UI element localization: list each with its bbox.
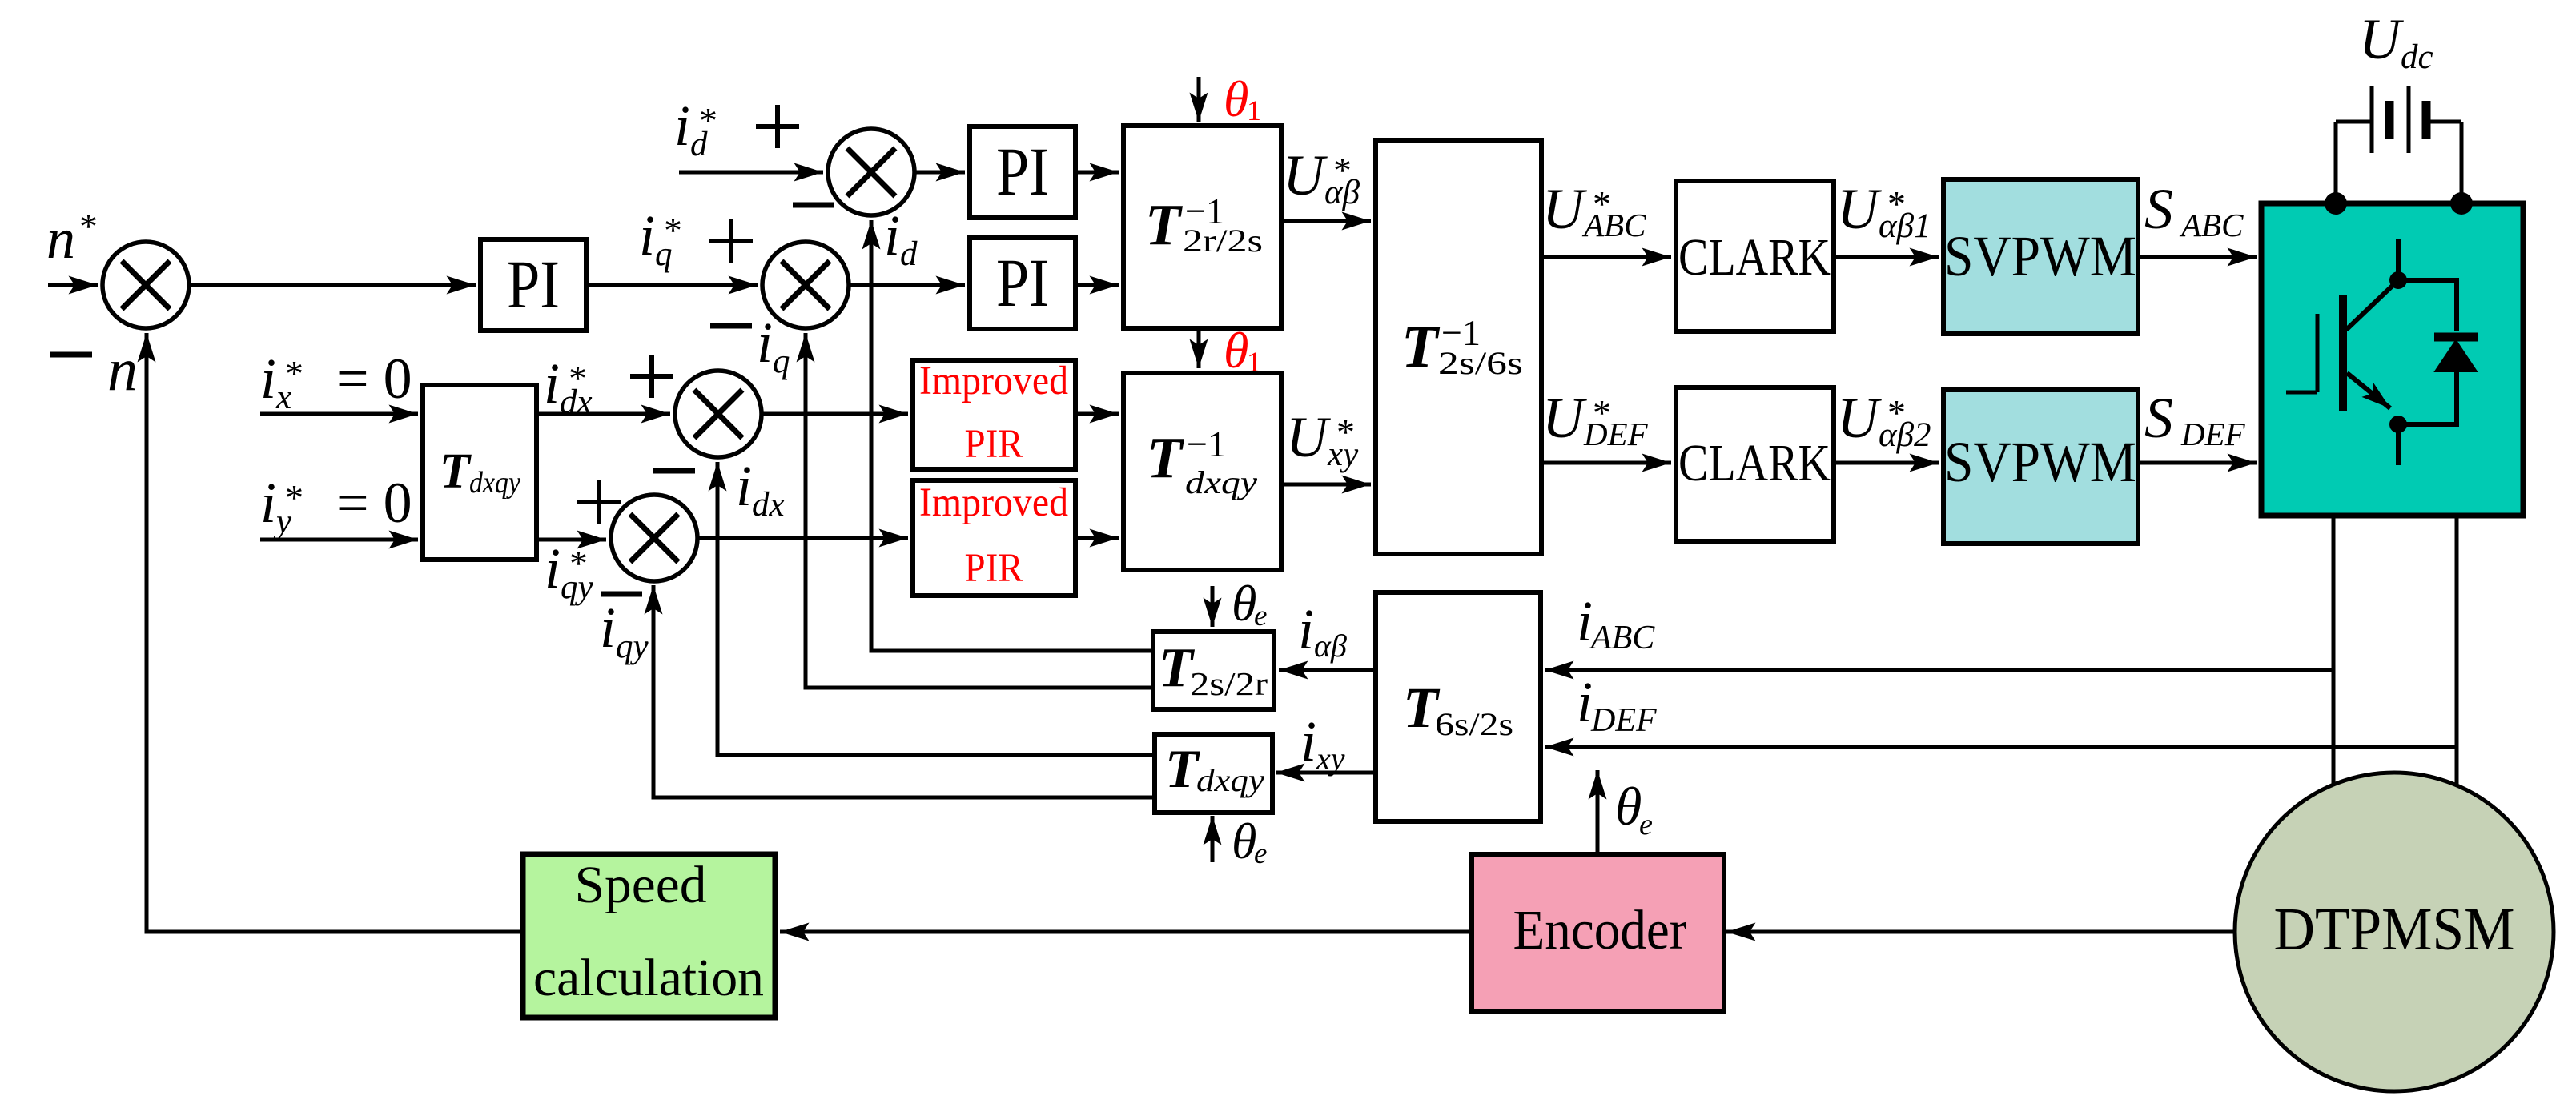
block SVPWM 1 (1943, 179, 2138, 334)
svg-text:q: q (773, 343, 790, 380)
svg-text:n: n (107, 336, 138, 403)
wire speed feedback n from Speed calculation up into S1 (147, 333, 523, 932)
svg-text:PI: PI (996, 244, 1049, 321)
node i_dx feedback label (736, 454, 785, 524)
node i_DEF label (1577, 670, 1657, 739)
node IGBT collector dot (2389, 271, 2407, 289)
node U_alphabeta* label (1283, 143, 1360, 211)
svg-text:1: 1 (1247, 94, 1261, 126)
wire S_ABC from SVPWM 1 to inverter (2138, 255, 2257, 259)
svg-text:i: i (736, 454, 752, 518)
node theta1 label upper (1224, 70, 1261, 127)
svg-text:*: * (1593, 183, 1611, 224)
svg-text:i: i (1300, 709, 1316, 773)
block T2r2s inverse transform (1123, 126, 1281, 328)
svg-text:i: i (1298, 597, 1314, 661)
node i_q* label (639, 203, 682, 273)
node theta_e label at Tdxqy (1232, 813, 1267, 870)
minus sign at S3 (793, 203, 834, 208)
svg-text:qy: qy (616, 628, 649, 665)
wire PI U2 output to T2r2s block (1077, 283, 1119, 287)
svg-text:i: i (1577, 589, 1593, 653)
wire U_alphabeta2* from CLARK 2 to SVPWM 2 (1834, 461, 1939, 465)
node n* reference label (46, 206, 98, 271)
wire inverter bottom lead B to DTPMSM (2455, 513, 2459, 785)
svg-text:e: e (1254, 837, 1267, 870)
svg-text:= 0: = 0 (336, 471, 412, 535)
wire S1 output to speed PI block (189, 283, 476, 287)
svg-text:θ: θ (1224, 70, 1248, 127)
svg-text:*: * (79, 206, 98, 247)
svg-text:T: T (1401, 314, 1441, 380)
wire theta1 input arrow into Tdxqy-inv top (1197, 330, 1201, 368)
wire n* input into summing junction S1 (48, 283, 98, 287)
svg-text:*: * (569, 358, 587, 399)
svg-text:DEF: DEF (2180, 415, 2246, 452)
svg-text:U: U (1283, 143, 1328, 207)
node i_alphabeta label (1298, 597, 1347, 664)
svg-text:e: e (1639, 808, 1653, 841)
svg-text:U: U (1286, 405, 1331, 469)
wire theta_e output arrow from Encoder top (1596, 770, 1600, 854)
plus sign at S4 (630, 355, 673, 398)
svg-text:xy: xy (1316, 741, 1345, 777)
svg-text:θ: θ (1232, 813, 1256, 869)
block Tdxqy reference transform (423, 385, 536, 560)
node i_qy* label (545, 536, 594, 606)
svg-text:e: e (1254, 600, 1267, 632)
wire Encoder output to Speed calculation (780, 930, 1472, 934)
svg-text:U: U (1542, 177, 1587, 241)
wire battery left lead down to inverter (2334, 122, 2338, 203)
svg-text:i: i (260, 471, 276, 535)
svg-text:i: i (260, 347, 276, 411)
transistor IGBT gate lead (2286, 391, 2317, 395)
battery Udc plate short right (2422, 101, 2431, 138)
svg-text:T: T (440, 444, 472, 499)
label Tdxqy inverse block (1147, 424, 1257, 500)
summing junction S5 i_qy error (611, 495, 697, 581)
wire inverter bottom lead A to DTPMSM (2332, 513, 2336, 785)
wire S2 output to PI block U2 (849, 283, 965, 287)
battery Udc plate long left (2370, 86, 2374, 153)
node battery right junction dot (2450, 192, 2473, 215)
wire i_qy* from Tdxqy to summing junction S5 (536, 538, 606, 542)
node i_qy feedback label (600, 596, 649, 665)
wire Improved PIR 1 output to Tdxqy-inv block (1075, 412, 1119, 416)
wire i_xy from T6s2s to Tdxqy feedback block (1276, 771, 1376, 775)
wire U_alphabeta* from T2r2s to T2s6s (1281, 219, 1371, 223)
wire U_DEF* from T2s6s to CLARK 2 (1541, 461, 1671, 465)
svg-text:*: * (285, 477, 303, 518)
svg-text:SVPWM: SVPWM (1944, 430, 2136, 494)
svg-text:Improved: Improved (919, 359, 1068, 403)
svg-text:αβ: αβ (1314, 628, 1347, 664)
block PI d-axis controller U1 (970, 126, 1075, 218)
block T6s2s transform (1376, 592, 1541, 821)
label Tdxqy feedback block (1165, 738, 1264, 799)
wire battery right lead down to inverter (2460, 122, 2464, 203)
wire IGBT collector to diode top (2398, 280, 2457, 331)
svg-text:*: * (1887, 183, 1906, 224)
summing junction S2 i_q error (762, 242, 849, 328)
label T6s2s block (1403, 676, 1513, 742)
wire i_d feedback from T2s2r up into S3 (871, 220, 1153, 651)
svg-text:*: * (1336, 411, 1355, 452)
transistor IGBT gate bar (2316, 314, 2320, 392)
wire i_x*=0 input to Tdxqy block (260, 412, 418, 416)
transistor IGBT body bar (2339, 295, 2347, 411)
plus sign at S2 (709, 219, 753, 263)
minus sign at S1 (50, 352, 92, 358)
svg-text:Speed: Speed (575, 856, 707, 914)
node i_d* label (674, 94, 717, 163)
svg-text:i: i (600, 596, 616, 660)
node S_DEF label (2144, 386, 2246, 452)
svg-text:Encoder: Encoder (1513, 900, 1687, 961)
svg-text:1: 1 (1247, 346, 1261, 378)
wire U_ABC* from T2s6s to CLARK 1 (1541, 255, 1671, 259)
label T2s6s inverse block (1401, 312, 1523, 381)
minus sign at S4 (653, 468, 695, 474)
wire battery right terminal (2426, 120, 2461, 124)
svg-text:PI: PI (507, 246, 560, 323)
node i_d feedback label (884, 203, 918, 273)
wire S5 output to Improved PIR 2 (697, 536, 908, 540)
wire S4 output to Improved PIR 1 (762, 412, 908, 416)
wire i_alphabeta from T6s2s to T2s2r (1279, 668, 1376, 672)
block CLARK 1 (1676, 181, 1834, 331)
node S_ABC label (2144, 177, 2244, 243)
block PI speed controller (480, 239, 586, 331)
svg-text:2s/2r: 2s/2r (1190, 665, 1268, 702)
svg-text:dxqy: dxqy (469, 466, 520, 500)
svg-text:DTPMSM: DTPMSM (2274, 896, 2515, 963)
node i_q feedback label (757, 311, 790, 380)
svg-text:*: * (569, 543, 588, 584)
svg-text:*: * (699, 100, 717, 141)
wire i_ABC feedback from inverter lead into T6s2s (1545, 668, 2333, 672)
block T2s2r feedback transform (1153, 632, 1274, 709)
svg-text:S: S (2144, 177, 2173, 241)
label T2s2r block (1159, 637, 1268, 702)
node U_alphabeta2* label (1837, 386, 1931, 454)
wire i_d* input into summing junction S3 (679, 171, 823, 175)
svg-text:*: * (664, 210, 682, 251)
svg-text:2s/6s: 2s/6s (1438, 345, 1523, 381)
wire battery left terminal (2336, 120, 2372, 124)
battery Udc plate short left (2385, 101, 2394, 138)
wire U_xy* from Tdxqy-inv to T2s6s (1281, 483, 1371, 487)
svg-text:i: i (674, 94, 690, 158)
svg-text:n: n (46, 207, 75, 271)
block T2s6s inverse transform (1376, 140, 1541, 554)
svg-text:PI: PI (996, 133, 1049, 210)
node U_alphabeta1* label (1837, 177, 1931, 245)
node theta_e label at Encoder (1615, 776, 1653, 841)
svg-text:U: U (2359, 7, 2404, 71)
svg-text:i: i (1577, 670, 1593, 734)
svg-text:*: * (285, 353, 303, 394)
minus sign at S5 (601, 592, 642, 597)
summing junction S4 i_dx error (675, 371, 762, 457)
wire Improved PIR 2 output to Tdxqy-inv block (1075, 536, 1119, 540)
svg-text:θ: θ (1615, 776, 1642, 837)
svg-text:PIR: PIR (965, 546, 1023, 591)
node i_ABC label (1577, 589, 1655, 656)
svg-text:ABC: ABC (2179, 207, 2244, 243)
wire i_q* from speed PI to summing junction S2 (586, 283, 758, 287)
block CLARK 2 (1676, 387, 1834, 541)
svg-text:i: i (639, 203, 655, 267)
svg-text:T: T (1147, 425, 1184, 490)
svg-text:= 0: = 0 (336, 347, 412, 411)
svg-text:dx: dx (752, 486, 785, 524)
svg-text:Improved: Improved (919, 480, 1068, 525)
label T2r2s inverse block (1145, 191, 1263, 259)
svg-text:*: * (1593, 392, 1611, 433)
svg-text:*: * (1333, 150, 1352, 191)
svg-text:DEF: DEF (1590, 702, 1657, 739)
node theta1 label lower (1224, 322, 1261, 379)
svg-text:i: i (757, 311, 773, 375)
svg-text:−1: −1 (1187, 424, 1226, 464)
svg-text:U: U (1542, 386, 1587, 450)
svg-text:2r/2s: 2r/2s (1183, 223, 1263, 259)
minus sign at S2 (710, 323, 752, 329)
svg-text:S: S (2144, 386, 2173, 450)
block Tdxqy feedback transform (1155, 734, 1272, 813)
motor DTPMSM circle (2235, 773, 2554, 1091)
node i_y*=0 reference label (260, 471, 412, 540)
wire i_qy feedback from Tdxqy feedback block up into S5 (653, 585, 1155, 797)
node U_ABC* label (1542, 177, 1646, 243)
node i_dx* label (544, 351, 593, 421)
battery Udc plate long right (2407, 86, 2411, 153)
wire theta_e input arrow into Tdxqy feedback block bottom (1211, 816, 1215, 862)
summing junction S1 speed error (102, 242, 189, 328)
node i_x*=0 reference label (260, 347, 412, 416)
svg-text:i: i (884, 203, 900, 267)
svg-text:i: i (544, 351, 560, 415)
wire i_q feedback from T2s2r up into S2 (806, 333, 1153, 688)
node i_xy label (1300, 709, 1345, 777)
wire i_dx feedback from Tdxqy feedback block up into S4 (717, 462, 1155, 755)
wire S_DEF from SVPWM 2 to inverter (2138, 461, 2257, 465)
svg-text:U: U (1837, 386, 1882, 450)
wire i_DEF feedback from inverter lead into T6s2s (1545, 745, 2457, 749)
diode cathode bar (2434, 333, 2478, 342)
node IGBT emitter dot (2389, 415, 2407, 433)
svg-text:CLARK: CLARK (1678, 434, 1831, 492)
plus sign at S3 (756, 105, 799, 148)
block inverter (2261, 203, 2523, 516)
wire S3 output to PI block U1 (914, 171, 965, 175)
svg-text:dc: dc (2401, 38, 2433, 76)
node U_dc label (2359, 7, 2433, 76)
svg-text:dxqy: dxqy (1196, 762, 1264, 798)
svg-text:ABC: ABC (1581, 207, 1646, 243)
wire PI U1 output to T2r2s block (1077, 171, 1119, 175)
summing junction S3 i_d error (828, 129, 914, 215)
diode anode triangle (2437, 342, 2475, 371)
transistor IGBT collector diagonal (2346, 280, 2398, 330)
block Tdxqy inverse transform (1123, 373, 1281, 570)
block Improved PIR 2 (913, 480, 1075, 596)
block Speed calculation (523, 854, 775, 1018)
wire U_alphabeta1* from CLARK 1 to SVPWM 1 (1834, 255, 1939, 259)
wire theta1 input arrow into T2r2s top (1197, 77, 1201, 122)
block SVPWM 2 (1943, 390, 2138, 544)
wire diode bottom to emitter node (2398, 371, 2457, 424)
wire theta_e input arrow into T2s2r top (1211, 586, 1215, 627)
transistor IGBT emitter arrow (2347, 373, 2390, 408)
svg-text:*: * (1887, 392, 1906, 433)
node U_DEF* label (1542, 386, 1649, 452)
svg-text:T: T (1145, 192, 1183, 257)
node U_xy* label (1286, 405, 1359, 473)
transistor IGBT emitter stub (2396, 424, 2401, 465)
svg-text:ABC: ABC (1589, 620, 1655, 656)
block PI q-axis controller U2 (970, 238, 1075, 329)
svg-text:i: i (545, 536, 561, 600)
svg-text:6s/2s: 6s/2s (1435, 706, 1513, 742)
transistor IGBT collector stub (2396, 239, 2401, 280)
svg-text:U: U (1837, 177, 1882, 241)
svg-text:d: d (900, 235, 918, 273)
node battery left junction dot (2325, 192, 2347, 215)
block Improved PIR 1 (913, 360, 1075, 469)
wire i_y*=0 input to Tdxqy block (260, 538, 418, 542)
svg-text:θ: θ (1232, 575, 1256, 632)
label Tdxqy reference block (440, 444, 520, 500)
svg-text:T: T (1165, 738, 1200, 799)
node theta_e label at T2s2r (1232, 575, 1267, 632)
svg-text:calculation: calculation (533, 949, 764, 1007)
svg-text:θ: θ (1224, 322, 1248, 379)
svg-text:SVPWM: SVPWM (1944, 224, 2136, 288)
wire i_dx* from Tdxqy to summing junction S4 (536, 412, 670, 416)
wire DTPMSM shaft to Encoder (1726, 930, 2235, 934)
block Encoder (1472, 854, 1724, 1011)
svg-text:dxqy: dxqy (1185, 464, 1257, 500)
svg-text:CLARK: CLARK (1678, 228, 1831, 287)
svg-text:PIR: PIR (965, 422, 1023, 467)
plus sign at S5 (577, 480, 621, 524)
